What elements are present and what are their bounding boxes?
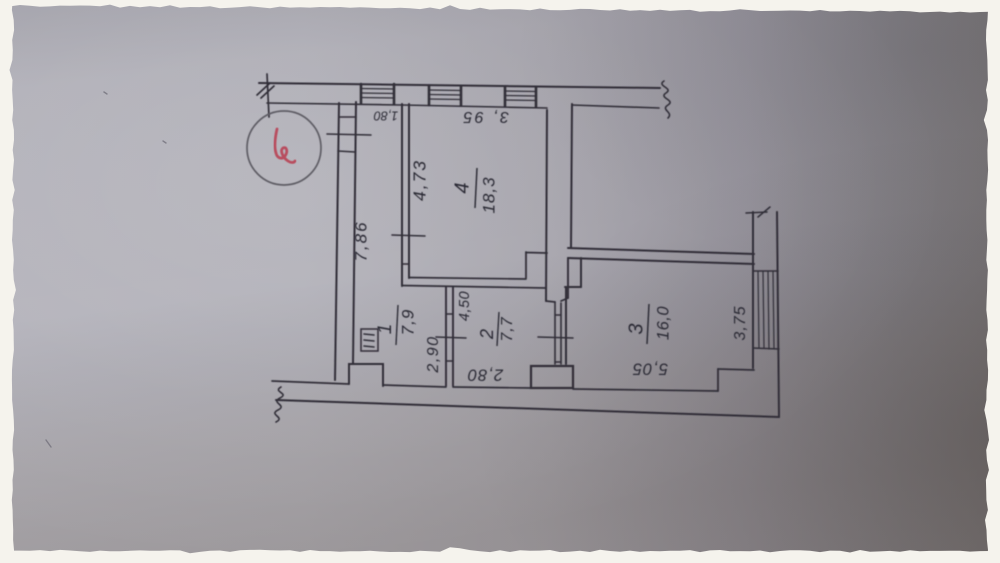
svg-text:16,0: 16,0 bbox=[654, 306, 672, 340]
torn white border top bbox=[0, 0, 1000, 13]
wall A rung bbox=[402, 263, 409, 265]
bottom-right jog horizontal bbox=[718, 369, 754, 370]
wall: hallway inner left bbox=[353, 102, 356, 364]
room 3 fraction bar bbox=[647, 304, 649, 344]
room 2 fraction bar bbox=[497, 312, 499, 346]
wall: right outer bbox=[777, 212, 779, 417]
room 3 left wall corner horizontal bbox=[565, 286, 581, 288]
door threshold block 2/3 bbox=[531, 366, 573, 388]
svg-text:5,05: 5,05 bbox=[632, 360, 668, 378]
wall A right line bbox=[408, 104, 410, 278]
shaft right jog to door bbox=[561, 298, 568, 301]
svg-text:2,90: 2,90 bbox=[425, 335, 442, 373]
wall B rung top bbox=[446, 313, 453, 315]
wire: bottom inner line room 3 segment bbox=[573, 389, 718, 391]
window block W1 (1,80) bbox=[361, 84, 394, 104]
wire: room 4 top inner line bbox=[403, 105, 547, 108]
paper specks bbox=[46, 92, 166, 447]
wall B dimension tick bbox=[436, 337, 466, 338]
wire: top outer wall line bbox=[259, 83, 660, 88]
shaft right line below wall bbox=[567, 258, 569, 298]
vent box room 1 bbox=[361, 329, 378, 351]
room 3 left wall corner vertical bbox=[580, 258, 582, 287]
svg-text:1: 1 bbox=[375, 324, 396, 335]
torn white border bottom bbox=[0, 547, 1000, 563]
wall: top-right section left bbox=[571, 104, 572, 247]
svg-text:4,73: 4,73 bbox=[410, 159, 430, 201]
wall: hallway outer left bbox=[335, 103, 339, 380]
balcony window rung 1 bbox=[339, 116, 356, 118]
wall: room 3 top upper line bbox=[568, 248, 754, 254]
svg-text:7,86: 7,86 bbox=[351, 220, 370, 261]
break squiggle top-right bbox=[662, 81, 670, 118]
svg-text:3,75: 3,75 bbox=[732, 305, 749, 340]
wire: bottom inner line room 1 segment bbox=[383, 385, 446, 387]
svg-text:1,80: 1,80 bbox=[374, 109, 398, 123]
wall: room 3 left bbox=[565, 287, 567, 364]
wall B right line bbox=[452, 287, 454, 386]
wire: room 4 bottom inner line bbox=[409, 278, 526, 280]
apartment number circle bbox=[247, 111, 321, 185]
wire: bottom inner line room 2 segment bbox=[453, 387, 531, 388]
door 2/3 right line bbox=[560, 303, 562, 364]
dimension tick right bbox=[746, 207, 770, 217]
window block W3 (3,95 right) bbox=[505, 87, 536, 107]
wire: bottom inner line left segment bbox=[272, 381, 349, 384]
svg-text:4: 4 bbox=[451, 182, 473, 193]
texts bbox=[351, 108, 749, 384]
dimension tick top-left bbox=[257, 74, 274, 117]
red handwritten 5 (rotated) bbox=[275, 129, 295, 163]
svg-text:3, 95: 3, 95 bbox=[461, 108, 509, 125]
door 2/3 bottom rung bbox=[555, 361, 561, 363]
wall: room 3 top lower line bbox=[568, 258, 754, 264]
wall A left line (corridor/room4) bbox=[401, 104, 403, 286]
wire: bottom outer wall line bbox=[276, 400, 779, 417]
wall A dimension tick bbox=[392, 235, 425, 236]
break squiggle bottom-left bbox=[275, 387, 283, 422]
svg-text:7,9: 7,9 bbox=[398, 309, 417, 336]
plan line work bbox=[257, 74, 779, 422]
wall: right inner (room 3) bbox=[752, 212, 754, 368]
svg-text:2,80: 2,80 bbox=[467, 366, 504, 384]
svg-text:18,3: 18,3 bbox=[479, 176, 498, 213]
window room 3 top cap bbox=[753, 270, 778, 272]
room 4 fraction bar bbox=[475, 168, 477, 208]
torn white border left bbox=[0, 0, 16, 563]
shaft jog to door 2/3 bbox=[546, 301, 555, 302]
balcony dimension tick bbox=[327, 134, 371, 135]
notch room4 bottom-right vertical bbox=[525, 252, 527, 278]
svg-text:4,50: 4,50 bbox=[457, 291, 473, 321]
window block W2 (3,95 left) bbox=[429, 86, 461, 106]
balcony window rung 2 bbox=[338, 151, 355, 152]
wire: top-right inner line bbox=[572, 105, 659, 108]
svg-text:2: 2 bbox=[477, 329, 497, 340]
door 2/3 dimension tick bbox=[538, 337, 573, 338]
window room 3 bottom cap bbox=[753, 348, 779, 349]
room 1 fraction bar bbox=[396, 305, 398, 345]
wall B rung bottom bbox=[446, 360, 453, 362]
svg-text:7,7: 7,7 bbox=[499, 316, 516, 341]
window room 3 glazing lines bbox=[758, 271, 774, 349]
bottom-right jog vertical bbox=[717, 369, 719, 391]
door 2/3 left line bbox=[554, 302, 556, 364]
wall B left line (rooms 1/2) bbox=[445, 287, 447, 386]
wire: balcony inner top line bbox=[267, 103, 403, 105]
pilaster bottom of room 1 bbox=[349, 364, 383, 386]
torn white border right bbox=[984, 0, 1000, 563]
wall: room 4 right bbox=[546, 110, 547, 301]
svg-text:3: 3 bbox=[625, 323, 647, 334]
wire: rooms 1-2 top wall outer line bbox=[402, 286, 546, 289]
door 2/3 top rung bbox=[555, 314, 561, 316]
notch room4 bottom-right horizontal bbox=[526, 252, 547, 255]
